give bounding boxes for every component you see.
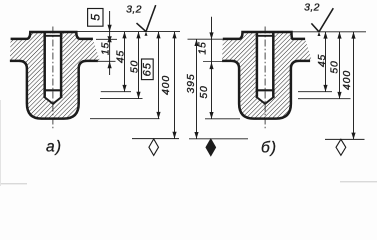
svg-text:50: 50 (329, 60, 341, 73)
svg-text:а): а) (46, 139, 62, 156)
svg-text:50: 50 (198, 85, 210, 98)
svg-text:400: 400 (341, 70, 353, 90)
svg-text:400: 400 (160, 75, 172, 95)
svg-text:65: 65 (142, 62, 154, 76)
svg-text:3,2: 3,2 (304, 2, 320, 14)
svg-text:б): б) (261, 140, 277, 157)
svg-text:3,2: 3,2 (126, 4, 142, 16)
svg-text:395: 395 (185, 74, 197, 94)
svg-text:45: 45 (316, 54, 328, 67)
svg-text:45: 45 (114, 50, 126, 63)
svg-text:15: 15 (197, 41, 209, 54)
svg-text:5: 5 (89, 14, 103, 21)
svg-text:50: 50 (128, 60, 140, 73)
svg-text:15: 15 (100, 42, 112, 55)
